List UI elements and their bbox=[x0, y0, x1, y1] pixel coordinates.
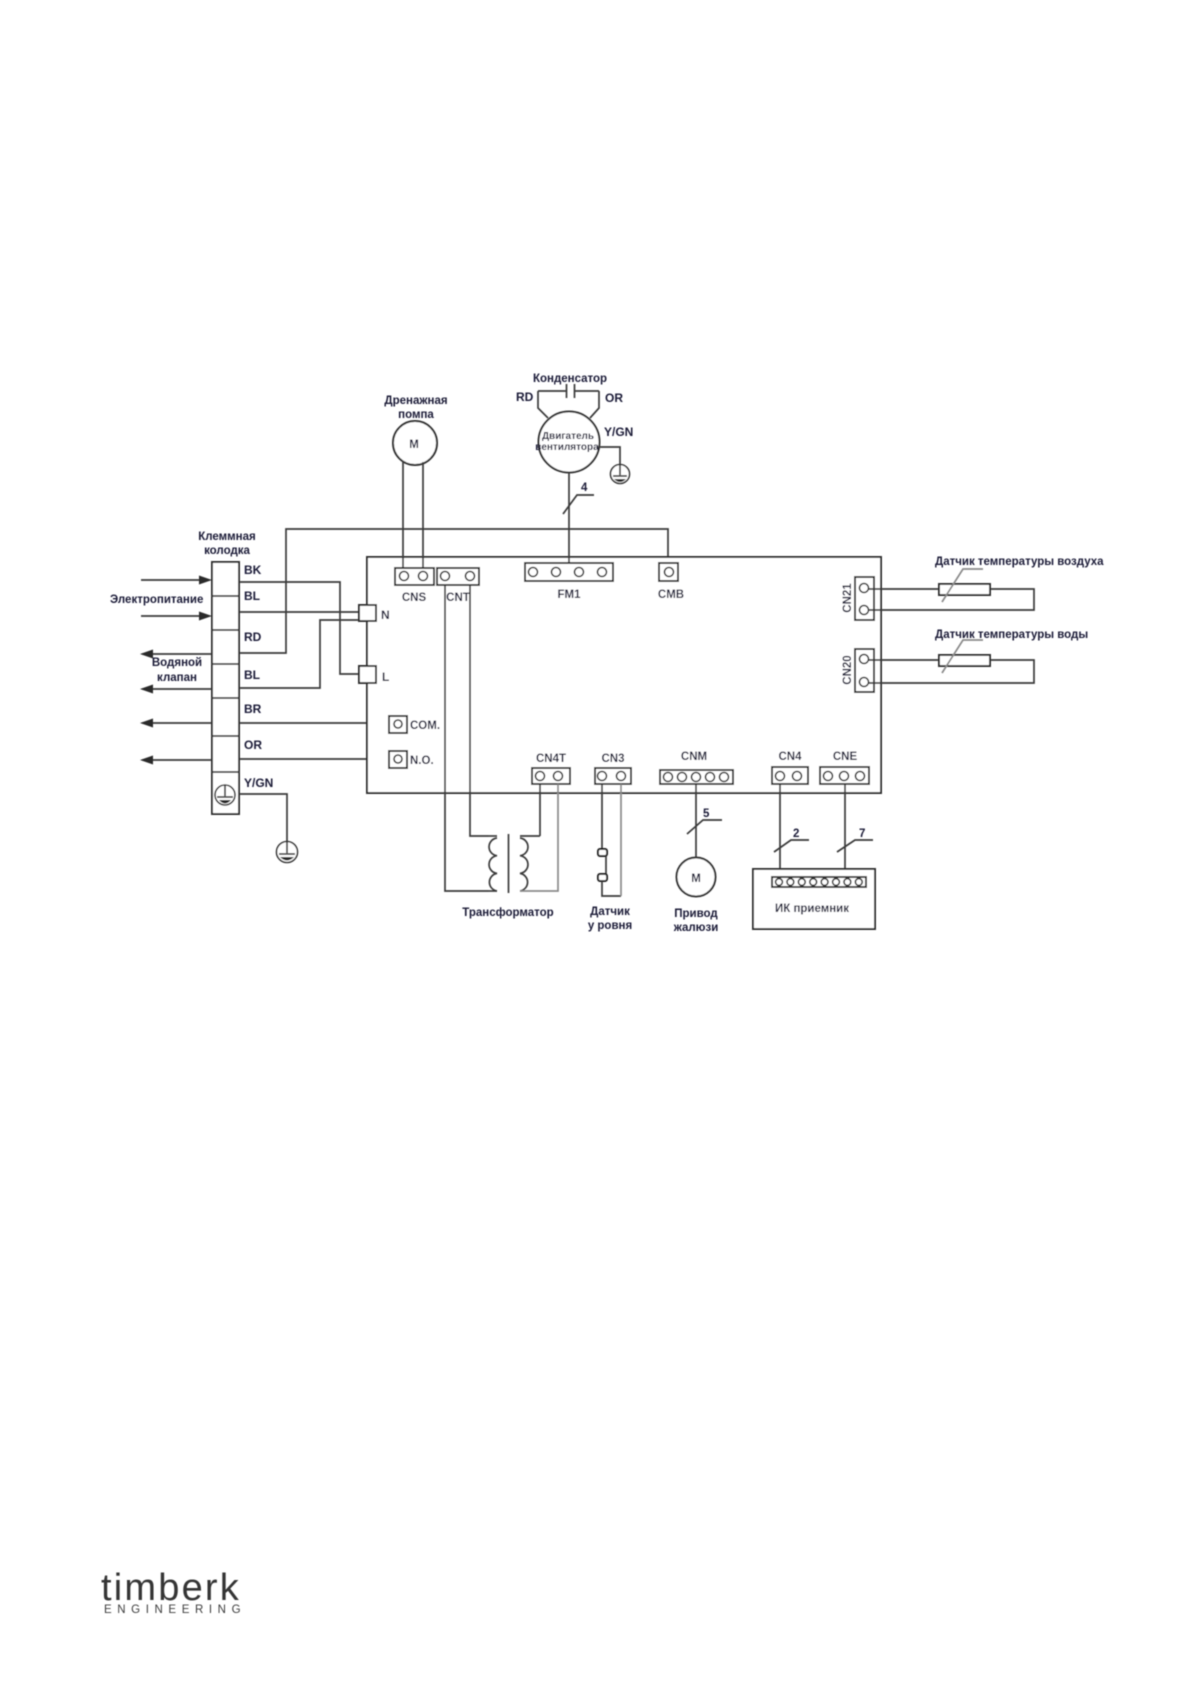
air temp sensor loop bbox=[868, 569, 1034, 610]
svg-text:CNS: CNS bbox=[402, 592, 427, 604]
svg-text:Y/GN: Y/GN bbox=[604, 425, 633, 439]
svg-text:Привод: Привод bbox=[674, 908, 718, 920]
wire CN4T pin2 to transformer bbox=[540, 784, 558, 891]
arrow valve out 2 bbox=[140, 685, 212, 694]
svg-text:Y/GN: Y/GN bbox=[244, 776, 273, 790]
louver drive motor M bbox=[677, 858, 716, 897]
svg-text:Дренажная: Дренажная bbox=[384, 395, 447, 407]
drain pump motor M bbox=[393, 421, 437, 465]
svg-text:Водяной: Водяной bbox=[152, 657, 202, 669]
svg-text:CN4: CN4 bbox=[778, 751, 802, 763]
svg-text:CNE: CNE bbox=[833, 751, 858, 763]
connector CN20 bbox=[842, 649, 874, 692]
arrow power in 2 bbox=[141, 612, 212, 621]
svg-text:Трансформатор: Трансформатор bbox=[462, 907, 553, 919]
svg-text:клапан: клапан bbox=[157, 672, 197, 684]
svg-text:5: 5 bbox=[703, 808, 710, 820]
svg-text:колодка: колодка bbox=[204, 545, 250, 557]
svg-text:7: 7 bbox=[859, 828, 865, 840]
svg-text:RD: RD bbox=[516, 390, 534, 404]
wire BR to COM bbox=[239, 722, 389, 724]
svg-text:CN20: CN20 bbox=[842, 655, 854, 684]
level sensor label bbox=[588, 906, 632, 932]
svg-text:CN4T: CN4T bbox=[536, 753, 566, 765]
connector CN3 bbox=[595, 753, 631, 784]
svg-text:CNT: CNT bbox=[446, 592, 470, 604]
svg-text:COM.: COM. bbox=[410, 720, 440, 732]
terminal N.O. bbox=[389, 751, 434, 768]
wire pump to CNS pin2 bbox=[422, 462, 424, 568]
arrow valve out 1 bbox=[140, 650, 212, 659]
wire CNT pin1 to transformer bbox=[445, 585, 489, 891]
arrow BR out bbox=[140, 719, 212, 728]
wire RD up to CMB bbox=[239, 529, 668, 653]
arrow OR out bbox=[140, 756, 212, 765]
svg-text:BL: BL bbox=[244, 668, 260, 682]
svg-text:Датчик температуры воздуха: Датчик температуры воздуха bbox=[935, 556, 1104, 568]
water temp sensor loop bbox=[868, 640, 1034, 683]
connector FM1 bbox=[525, 563, 613, 601]
fan motor bbox=[535, 412, 599, 473]
wire CNM to louver motor bbox=[695, 784, 697, 858]
wire CNT pin2 to transformer bbox=[470, 585, 489, 836]
louver drive label bbox=[673, 908, 719, 934]
PCB board outline bbox=[367, 557, 881, 793]
wire pump to CNS pin1 bbox=[402, 461, 404, 568]
transformer T1 bbox=[489, 834, 540, 893]
svg-text:OR: OR bbox=[244, 738, 262, 752]
wire fan to ground bbox=[599, 447, 620, 464]
svg-text:ИК приемник: ИК приемник bbox=[775, 903, 849, 915]
svg-text:L: L bbox=[382, 670, 389, 684]
wire OR to N.O. bbox=[239, 758, 389, 760]
svg-text:BR: BR bbox=[244, 702, 262, 716]
terminal L bbox=[359, 666, 389, 684]
level sensor bbox=[598, 849, 621, 896]
arrow power in 1 bbox=[141, 576, 212, 585]
terminal block bbox=[212, 562, 239, 814]
connector CN4 bbox=[772, 751, 808, 784]
svg-text:Датчик: Датчик bbox=[590, 906, 630, 918]
wire level sensor to CN3 pin2 bbox=[620, 784, 622, 896]
wire CN4T pin1 to transformer bbox=[539, 784, 541, 836]
svg-text:помпа: помпа bbox=[398, 409, 434, 421]
IR receiver box bbox=[753, 869, 875, 929]
connector CMB bbox=[658, 563, 684, 601]
cable marker 7 bbox=[837, 828, 873, 852]
label Водяной клапан bbox=[152, 657, 202, 684]
svg-text:Клеммная: Клеммная bbox=[198, 531, 255, 543]
svg-text:N.O.: N.O. bbox=[410, 755, 434, 767]
connector CNT bbox=[437, 568, 479, 604]
svg-text:CN3: CN3 bbox=[601, 753, 624, 765]
cable marker 5 bbox=[687, 808, 722, 834]
svg-text:Электропитание: Электропитание bbox=[110, 594, 203, 606]
timberk logo bbox=[101, 1567, 246, 1616]
wire CN3 pin1 to level sensor bbox=[601, 784, 603, 849]
connector CNM bbox=[660, 751, 733, 784]
wire fan to FM1 bbox=[568, 473, 570, 564]
svg-text:FM1: FM1 bbox=[558, 589, 582, 601]
connector CNE bbox=[820, 751, 869, 784]
svg-text:вентилятора: вентилятора bbox=[535, 442, 599, 453]
svg-text:4: 4 bbox=[581, 482, 588, 494]
svg-text:M: M bbox=[691, 873, 701, 885]
svg-text:M: M bbox=[409, 439, 419, 451]
svg-text:у ровня: у ровня bbox=[588, 920, 632, 932]
svg-text:CMB: CMB bbox=[658, 589, 684, 601]
connector CN4T bbox=[532, 753, 570, 784]
cable marker 2 bbox=[774, 828, 809, 852]
fan ground bbox=[611, 465, 630, 484]
wire BL2 to N bbox=[239, 620, 359, 688]
terminal N bbox=[359, 605, 390, 622]
svg-text:Датчик температуры воды: Датчик температуры воды bbox=[935, 629, 1088, 641]
svg-text:CNM: CNM bbox=[681, 751, 707, 763]
cable marker 4 bbox=[563, 482, 594, 514]
drain pump label bbox=[384, 395, 447, 421]
svg-text:OR: OR bbox=[605, 391, 623, 405]
svg-text:BK: BK bbox=[244, 563, 262, 577]
connector CN21 bbox=[842, 577, 874, 620]
ground symbol in terminal block bbox=[215, 785, 235, 805]
wire CNE to IR receiver bbox=[844, 784, 846, 877]
terminal block label bbox=[198, 531, 255, 557]
svg-text:timberk: timberk bbox=[101, 1567, 241, 1609]
wire BK to L bbox=[239, 582, 359, 674]
svg-text:Конденсатор: Конденсатор bbox=[533, 373, 607, 385]
wire BL to N bbox=[239, 611, 359, 613]
svg-text:RD: RD bbox=[244, 630, 262, 644]
svg-text:N: N bbox=[381, 608, 390, 622]
svg-text:Двигатель: Двигатель bbox=[542, 431, 594, 442]
wire CN4 to IR receiver bbox=[779, 784, 781, 877]
capacitor bbox=[538, 384, 599, 418]
svg-text:CN21: CN21 bbox=[842, 583, 854, 613]
ground below terminal bbox=[277, 842, 298, 863]
svg-text:жалюзи: жалюзи bbox=[673, 922, 719, 934]
connector CNS bbox=[395, 568, 434, 604]
wire Y/GN to ground bbox=[239, 794, 287, 842]
terminal COM bbox=[389, 716, 440, 733]
svg-text:ENGINEERING: ENGINEERING bbox=[104, 1604, 246, 1616]
svg-text:2: 2 bbox=[793, 828, 799, 840]
svg-text:BL: BL bbox=[244, 589, 260, 603]
